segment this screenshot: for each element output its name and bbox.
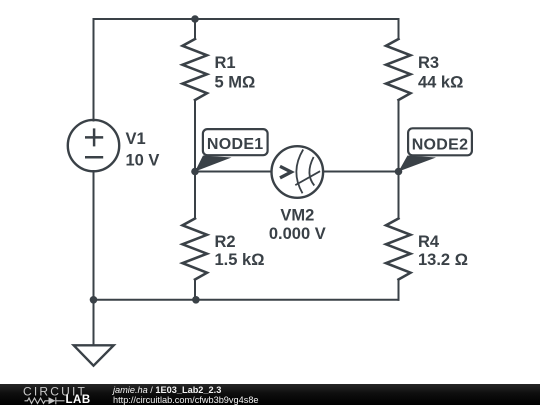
svg-text:5 MΩ: 5 MΩ: [215, 73, 256, 91]
wire voltmeter to NODE2: [323, 171, 399, 173]
svg-text:1.5 kΩ: 1.5 kΩ: [215, 251, 265, 269]
wire NODE1 to voltmeter: [195, 171, 272, 173]
voltmeter VM2: [272, 146, 324, 198]
junction NODE2: [395, 168, 403, 176]
svg-text:0.000 V: 0.000 V: [269, 225, 326, 243]
junction NODE1: [191, 168, 199, 176]
attribution line 1: [113, 385, 221, 395]
svg-text:R2: R2: [215, 233, 236, 251]
junction top rail / R1: [191, 15, 199, 23]
svg-text:R1: R1: [215, 54, 236, 72]
wire R4 bottom stub: [398, 280, 400, 300]
svg-text:R4: R4: [418, 233, 440, 251]
wire R2 bottom stub: [194, 280, 196, 300]
wire V1 bottom to ground rail: [93, 171, 95, 300]
resistor R3 body: [386, 39, 411, 100]
svg-text:44 kΩ: 44 kΩ: [418, 73, 463, 91]
svg-text:VM2: VM2: [280, 207, 314, 225]
wire R3 branch top stub: [398, 19, 400, 39]
svg-text:NODE1: NODE1: [207, 136, 264, 153]
wire ground stub: [93, 300, 95, 345]
node NODE1 flag pointer: [195, 156, 232, 172]
svg-text:LAB: LAB: [66, 394, 91, 405]
CircuitLab logo: [0, 384, 110, 405]
wire R3 bottom to NODE2: [398, 100, 400, 172]
node NODE1 label box: [203, 129, 268, 155]
junction bottom rail / R2: [192, 296, 200, 304]
resistor R2 body: [183, 219, 208, 280]
svg-text:13.2 Ω: 13.2 Ω: [418, 251, 468, 269]
wire R4 top stub: [398, 172, 400, 219]
wire R1 branch top stub: [194, 19, 196, 39]
resistor R1 body: [183, 39, 208, 100]
svg-text:V1: V1: [126, 130, 146, 148]
wire bottom rail: [94, 299, 399, 301]
wire top rail: [94, 19, 399, 121]
voltage source V1: [68, 120, 119, 171]
footer bar: [0, 384, 540, 405]
ground: [74, 345, 114, 365]
junction bottom rail / ground: [90, 296, 98, 304]
node NODE2 label box: [408, 128, 472, 155]
resistor R4 body: [386, 219, 411, 280]
svg-text:R3: R3: [418, 54, 439, 72]
node NODE2 flag pointer: [399, 156, 437, 172]
attribution line 2: [113, 395, 259, 405]
svg-text:10 V: 10 V: [126, 152, 160, 170]
wire R2 top stub: [194, 172, 196, 219]
wire R1 bottom to NODE1: [194, 100, 196, 172]
svg-text:NODE2: NODE2: [412, 136, 469, 153]
